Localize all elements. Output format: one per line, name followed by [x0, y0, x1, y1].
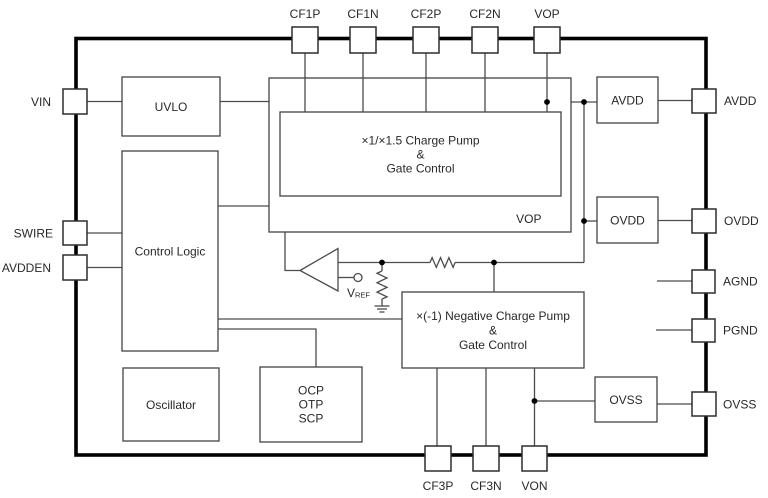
wire Control Logic to charge pump box — [218, 205, 269, 207]
svg-text:CF1N: CF1N — [347, 7, 378, 21]
svg-text:CF2P: CF2P — [411, 7, 442, 21]
wire pin CF2P down to gate control — [425, 53, 427, 112]
svg-text:AGND: AGND — [723, 275, 758, 289]
svg-text:UVLO: UVLO — [155, 100, 188, 114]
wire VIN to UVLO — [87, 101, 122, 103]
block Oscillator — [123, 368, 219, 441]
svg-text:OTP: OTP — [299, 398, 324, 412]
junction node feedback divider — [379, 260, 385, 266]
svg-text:SCP: SCP — [299, 412, 324, 426]
svg-text:OVDD: OVDD — [610, 214, 645, 228]
pin OVDD — [692, 209, 716, 233]
wire feedback node down to lower resistor — [381, 263, 383, 272]
svg-text:×1/×1.5 Charge Pump: ×1/×1.5 Charge Pump — [361, 134, 479, 148]
svg-text:AVDDEN: AVDDEN — [2, 261, 51, 275]
block OCP OTP SCP — [260, 367, 362, 442]
block OVDD regulator — [597, 197, 658, 243]
wire AVDDEN to Control Logic — [87, 267, 122, 269]
wire pin CF2N down to gate control — [484, 53, 486, 112]
svg-text:OVSS: OVSS — [723, 398, 756, 412]
svg-text:VIN: VIN — [31, 95, 51, 109]
svg-text:CF1P: CF1P — [290, 7, 321, 21]
redraw top pin wires over box fill — [305, 78, 547, 112]
wire stub pin AGND — [657, 280, 693, 282]
pin CF3N — [473, 446, 499, 471]
block negative charge pump — [402, 292, 584, 368]
junction node OVDD branch — [581, 218, 587, 224]
block charge pump outer (VOP domain) — [269, 78, 571, 232]
svg-text:×(-1) Negative Charge Pump: ×(-1) Negative Charge Pump — [416, 309, 570, 323]
op-amp comparator — [300, 249, 338, 292]
resistor R divider (vertical) — [377, 271, 387, 299]
junction node VON-OVSS — [532, 398, 538, 404]
wire VON node to OVSS regulator — [535, 400, 596, 402]
svg-text:SWIRE: SWIRE — [14, 227, 53, 241]
junction node AVDD branch — [581, 99, 587, 105]
pin AVDD — [692, 89, 716, 113]
svg-text:CF3N: CF3N — [470, 479, 501, 493]
svg-text:VOP: VOP — [534, 7, 559, 21]
pin CF1N — [350, 27, 376, 53]
pin AGND — [692, 270, 715, 293]
svg-text:AVDD: AVDD — [611, 94, 644, 108]
wire pin VOP down to gate control — [546, 53, 548, 112]
resistor R feedback (horizontal) — [430, 258, 455, 268]
wire branch to OVDD regulator — [584, 220, 597, 222]
junction node feedback to negative pump — [491, 260, 497, 266]
svg-text:Gate Control: Gate Control — [459, 338, 527, 352]
svg-text:CF2N: CF2N — [469, 7, 500, 21]
block OVSS regulator — [595, 377, 657, 422]
wire AVDD regulator to pin AVDD — [658, 100, 693, 102]
wire negative charge pump to pin VON — [534, 368, 536, 446]
wire negative charge pump to pin CF3N — [485, 368, 487, 446]
svg-text:VREF: VREF — [347, 286, 370, 300]
svg-text:VON: VON — [521, 479, 547, 493]
wire pin CF1N down to gate control — [362, 53, 364, 112]
svg-text:OCP: OCP — [298, 384, 324, 398]
pin CF2P — [413, 27, 439, 53]
svg-text:Control Logic: Control Logic — [135, 245, 206, 259]
block UVLO — [122, 77, 220, 136]
wire negative charge pump to pin CF3P — [436, 368, 438, 446]
svg-text:OVDD: OVDD — [724, 214, 759, 228]
wire lower resistor to ground — [381, 299, 383, 306]
junction node VOP-AVDD — [544, 99, 550, 105]
VREF input terminal circle — [354, 274, 362, 282]
svg-text:&: & — [416, 148, 424, 162]
wire VOP node to AVDD regulator — [547, 101, 597, 103]
svg-text:VOP: VOP — [516, 212, 541, 226]
ground — [375, 306, 390, 312]
svg-text:&: & — [489, 324, 497, 338]
svg-text:OVSS: OVSS — [609, 393, 642, 407]
block Control Logic — [122, 151, 218, 351]
wire feedback node to negative charge pump — [493, 263, 495, 293]
wire Control Logic to OCP/OTP/SCP block — [218, 329, 316, 367]
pin CF1P — [292, 27, 318, 53]
wire feedback resistor to VOP branch — [455, 262, 584, 264]
wire pin CF1P down to gate control — [304, 53, 306, 112]
svg-text:PGND: PGND — [723, 324, 758, 338]
pin VON — [522, 446, 547, 471]
wire VOP vertical branch — [583, 102, 585, 263]
pin OVSS — [692, 392, 716, 416]
wire OVSS regulator to pin OVSS — [657, 403, 693, 405]
block x1/x1.5 charge pump and gate control — [280, 112, 561, 196]
wire UVLO to charge pump box — [220, 101, 269, 103]
wire stub pin PGND — [656, 329, 693, 331]
pin AVDDEN — [63, 255, 87, 280]
wire comparator output to gate control — [285, 232, 300, 271]
wire comparator feedback input — [338, 262, 430, 264]
block AVDD regulator — [597, 77, 658, 123]
pin VOP — [534, 27, 560, 53]
wire SWIRE to Control Logic — [87, 232, 122, 234]
pin PGND — [692, 319, 715, 342]
pin CF3P — [425, 446, 451, 471]
svg-text:Gate Control: Gate Control — [386, 162, 454, 176]
svg-text:AVDD: AVDD — [724, 94, 757, 108]
svg-text:Oscillator: Oscillator — [146, 398, 196, 412]
wire Control Logic to negative charge pump — [218, 318, 402, 320]
pin SWIRE — [63, 221, 87, 245]
chip outer boundary — [76, 39, 706, 456]
pin VIN — [63, 89, 87, 114]
wire comparator VREF input — [338, 277, 354, 279]
svg-text:CF3P: CF3P — [423, 479, 454, 493]
pin CF2N — [472, 27, 498, 53]
wire OVDD regulator to pin OVDD — [658, 220, 693, 222]
